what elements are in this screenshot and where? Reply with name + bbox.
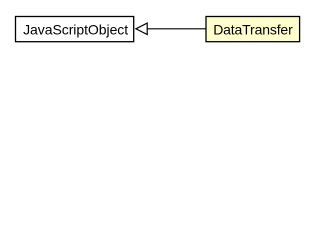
- inheritance arrowhead (hollow triangle): [136, 23, 147, 34]
- class box DataTransfer (highlighted): [206, 17, 300, 42]
- class box JavaScriptObject: [16, 17, 134, 42]
- svg-text:DataTransfer: DataTransfer: [213, 21, 293, 37]
- background: [0, 0, 315, 59]
- wire: inheritance edge line: [147, 28, 206, 30]
- svg-text:JavaScriptObject: JavaScriptObject: [23, 21, 128, 37]
